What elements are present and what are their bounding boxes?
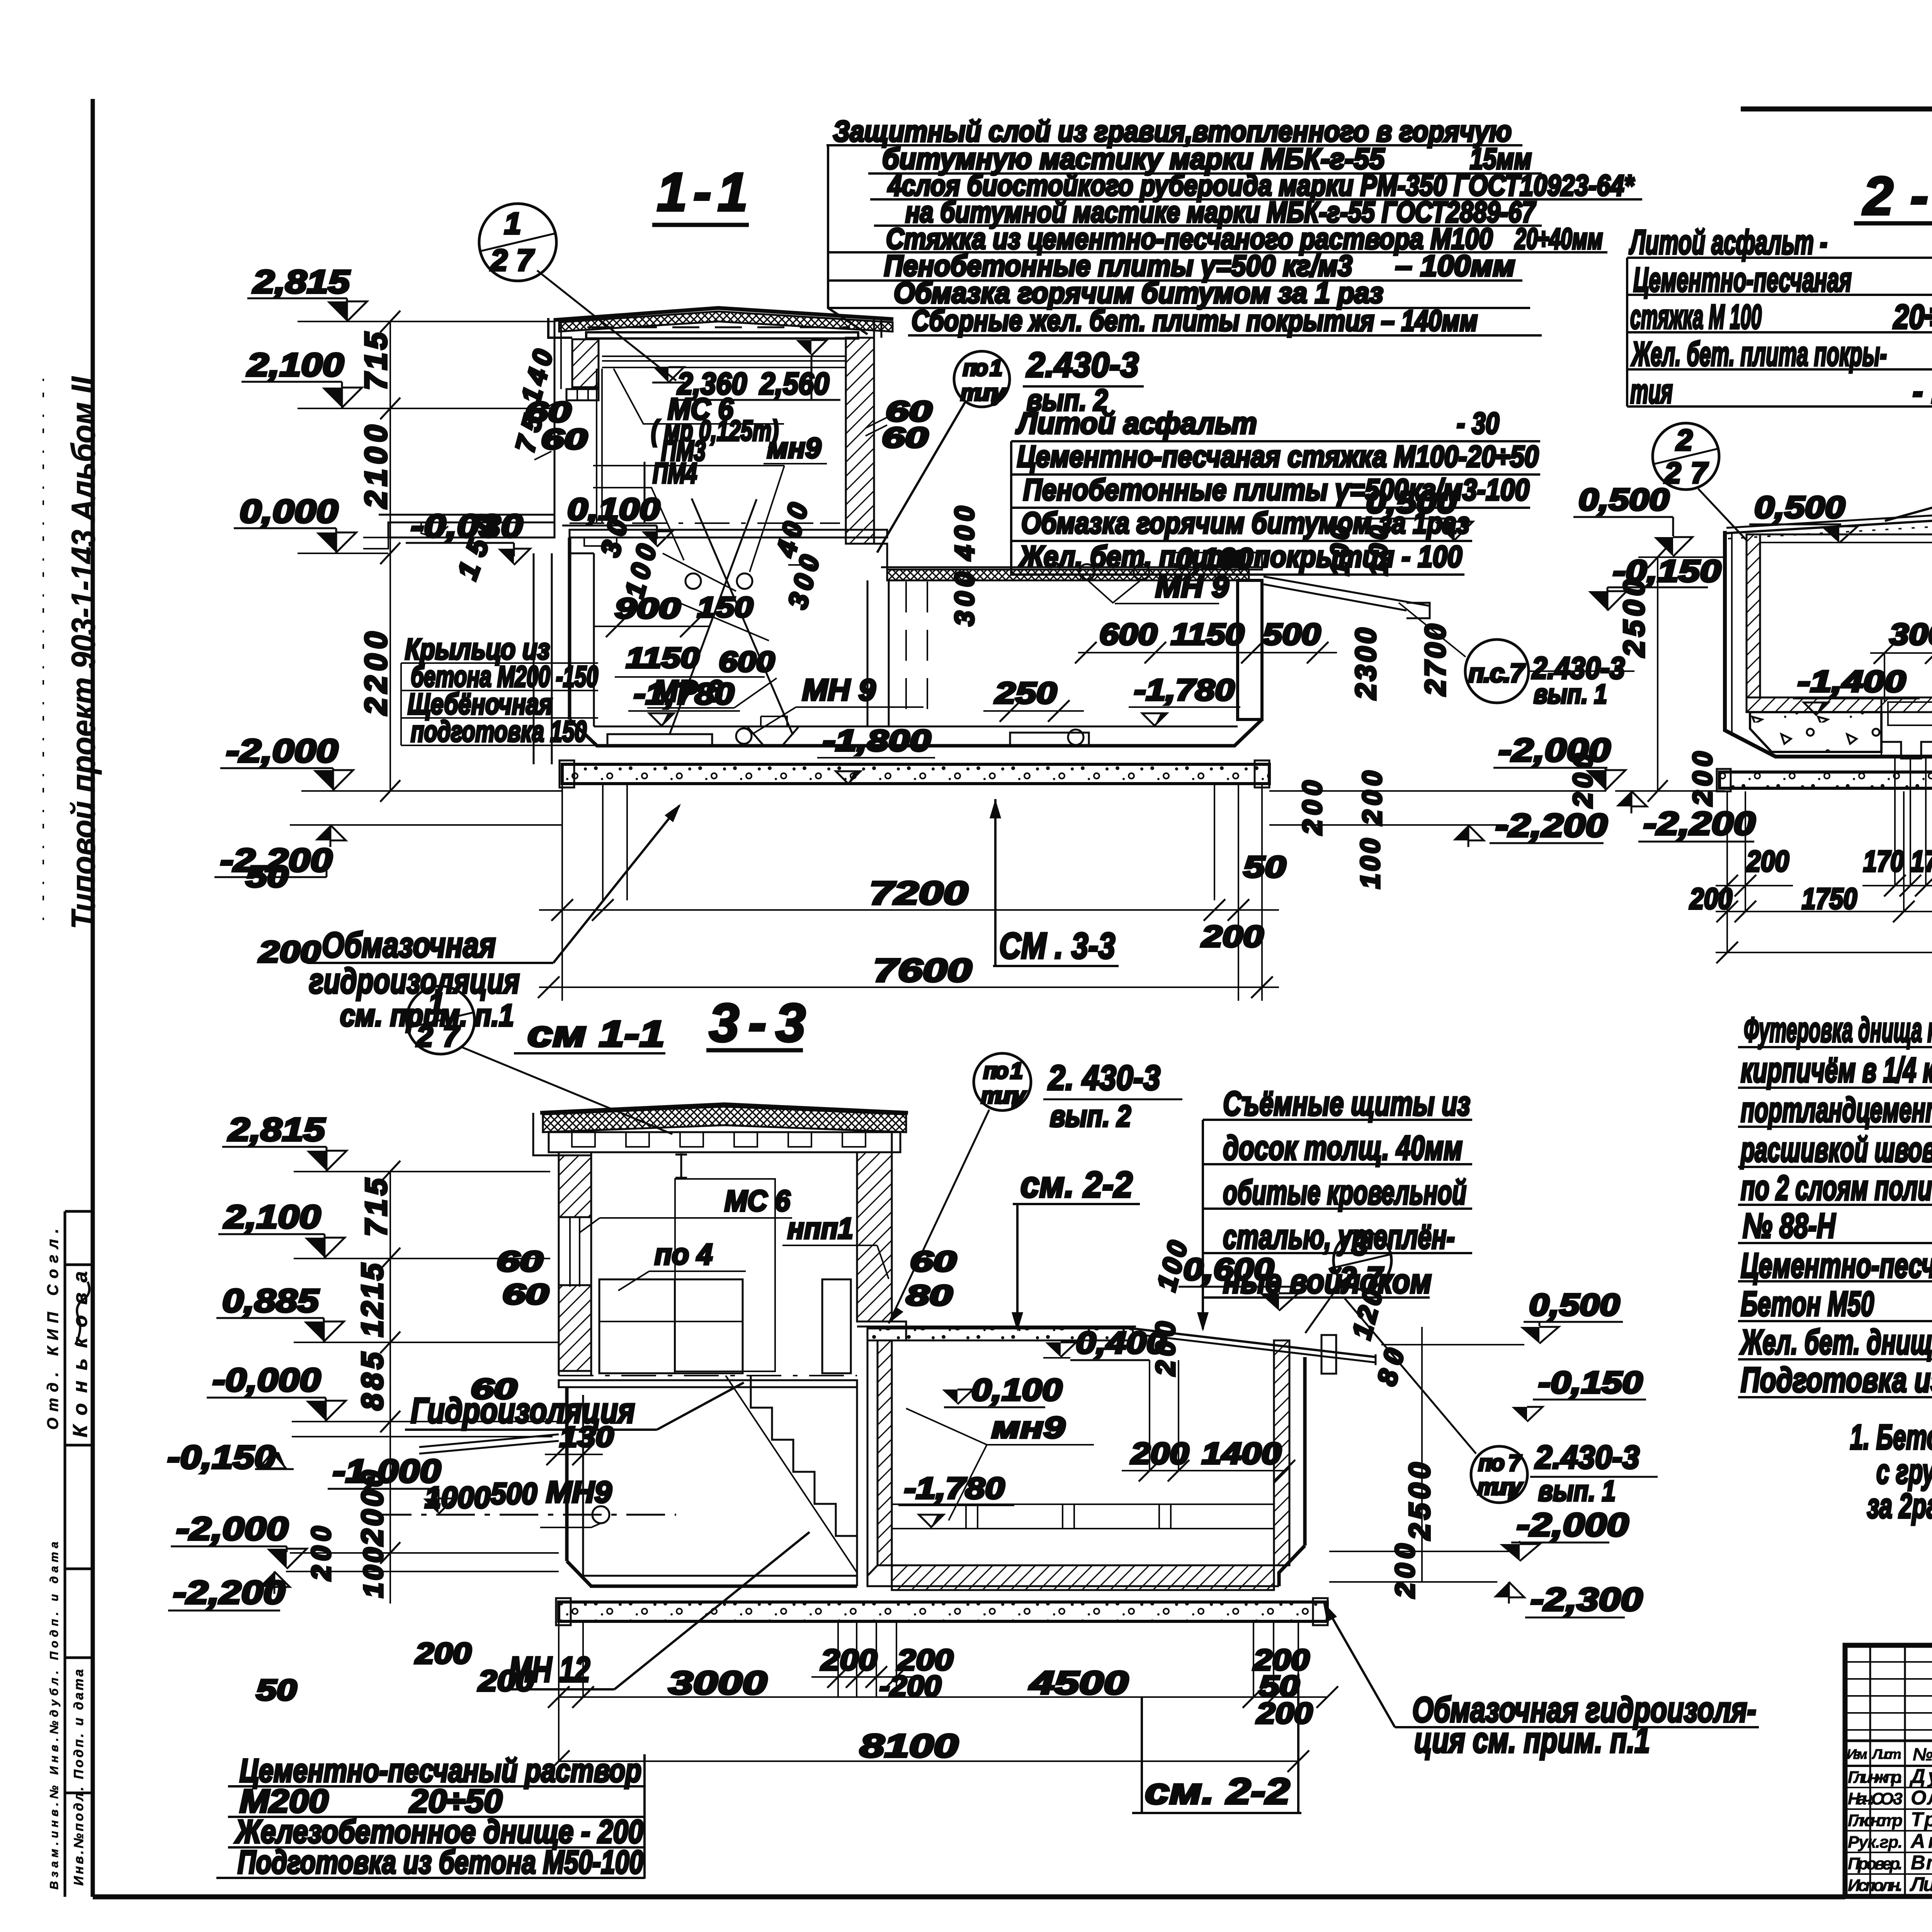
svg-text:200: 200: [1201, 919, 1264, 953]
svg-text:60: 60: [541, 423, 587, 455]
2500 rotated + chain: [1657, 557, 1658, 791]
bottom extension verticals 3-3: [558, 1621, 560, 1761]
svg-text:Футеровка днища кислотоупорны: Футеровка днища кислотоупорным: [1744, 1011, 1932, 1049]
svg-text:-0,000: -0,000: [213, 1362, 321, 1398]
svg-text:1750: 1750: [1802, 883, 1857, 915]
tank middle wall under right wall of building: [867, 580, 869, 726]
tank interior ceiling lines: [1747, 534, 1932, 536]
svg-text:кирпичём в 1/4 кирпича в 2: кирпичём в 1/4 кирпича в 2 слоя на: [1741, 1051, 1932, 1090]
left columns verticals: [1869, 1645, 1871, 1896]
lower roof slab over tank: [881, 566, 1266, 568]
g-section11: [214, 204, 1721, 1001]
svg-text:200: 200: [1297, 781, 1327, 835]
0,000 level dash line and floor: [559, 1375, 857, 1376]
svg-text:80: 80: [906, 1279, 952, 1311]
marker circle 1/27 (3-3): [406, 986, 474, 1054]
wooden cover sloped right: [1132, 1328, 1376, 1357]
brick ledge under column: [566, 389, 599, 400]
по1/типу circle (3-3): [974, 1053, 1031, 1111]
anchor circles МН9: [685, 573, 701, 589]
g-section33: [167, 986, 1658, 1772]
right wall hatched 3-3: [857, 1152, 892, 1321]
svg-text:по 4: по 4: [655, 1238, 713, 1271]
svg-text:60: 60: [471, 1373, 517, 1405]
rules of roof note: [827, 144, 1522, 146]
svg-text:Жел. бет. днище: Жел. бет. днище: [1740, 1323, 1932, 1362]
svg-text:50: 50: [1243, 850, 1286, 884]
svg-text:2,560: 2,560: [759, 366, 829, 401]
ladder diagonals: [692, 498, 793, 735]
svg-text:Типовой проект 903-1-143 А: Типовой проект 903-1-143 Альбом II: [65, 376, 102, 929]
svg-text:обитые кровельной: обитые кровельной: [1223, 1173, 1466, 1211]
svg-text:60: 60: [882, 422, 928, 454]
main dims row 1750: [1716, 911, 1932, 912]
svg-text:сталью, утеплён-: сталью, утеплён-: [1223, 1218, 1455, 1256]
svg-text:3: 3: [1352, 1229, 1368, 1262]
svg-text:за 2раза по холодной бензи: за 2раза по холодной бензинобитумной гру…: [1867, 1487, 1932, 1526]
7600 row 2-2: [1716, 952, 1932, 953]
svg-text:1: 1: [504, 206, 521, 240]
svg-text:-2,200: -2,200: [1643, 805, 1755, 842]
svg-text:-2,000: -2,000: [226, 733, 338, 769]
svg-text:-2,200: -2,200: [220, 842, 332, 878]
left wall hatched upper: [559, 1155, 591, 1217]
left wall window strip: [558, 1152, 560, 1376]
svg-text:мн9: мн9: [992, 1410, 1065, 1444]
marker circle по1/типу (1-1): [954, 351, 1010, 407]
svg-text:Отд. КИП Согл.: Отд. КИП Согл.: [44, 1229, 61, 1430]
svg-text:600: 600: [719, 646, 775, 678]
svg-text:100: 100: [358, 1548, 388, 1598]
svg-text:см. 2-2: см. 2-2: [1145, 1771, 1290, 1812]
svg-text:портландцементном растворе с: портландцементном растворе с: [1741, 1091, 1932, 1129]
svg-text:вып. 2: вып. 2: [1050, 1099, 1131, 1133]
svg-text:-0,150: -0,150: [1538, 1365, 1643, 1400]
svg-text:нпп1: нпп1: [787, 1212, 853, 1245]
svg-text:Гл.инж.пр.: Гл.инж.пр.: [1848, 1768, 1903, 1787]
svg-text:200: 200: [1130, 1436, 1189, 1470]
по7/типу circle bottom: [1471, 1446, 1527, 1503]
signature rows: [1845, 1787, 1932, 1788]
svg-text:Литой асфальт -: Литой асфальт -: [1629, 223, 1827, 261]
svg-text:-2,200: -2,200: [1495, 807, 1607, 844]
svg-text:200: 200: [1687, 752, 1718, 806]
svg-text:3 - 3: 3 - 3: [709, 992, 806, 1053]
svg-text:200: 200: [1568, 753, 1598, 808]
МС6 interior column: [675, 1179, 775, 1371]
0.000 dash-dot line: [570, 522, 840, 524]
svg-text:3000: 3000: [668, 1665, 767, 1701]
svg-text:-2,000: -2,000: [1517, 1507, 1629, 1543]
МН9 labels right room: [1079, 564, 1095, 580]
svg-text:8100: 8100: [860, 1728, 958, 1764]
left wall hatched lower block: [559, 1285, 591, 1371]
svg-text:1000: 1000: [425, 1480, 490, 1514]
tank right wall: [1238, 580, 1262, 719]
svg-text:СМ . 3-3: СМ . 3-3: [999, 925, 1115, 966]
svg-text:Цементно-песчаная: Цементно-песчаная: [1633, 260, 1852, 299]
left tank floor slab hatched: [1747, 697, 1932, 712]
svg-text:Олешко: Олешко: [1911, 1787, 1932, 1809]
right wall hatched: [846, 338, 874, 544]
svg-text:Трейс: Трейс: [1911, 1808, 1932, 1831]
left eave block: [548, 318, 572, 338]
roof top line 3-3: [540, 1104, 908, 1113]
extension verticals below 2-2: [1726, 791, 1728, 952]
svg-text:2,100: 2,100: [247, 347, 344, 383]
vertical dim chain left: [389, 321, 391, 791]
svg-text:Съёмные щиты из: Съёмные щиты из: [1223, 1084, 1470, 1122]
svg-text:Провер.: Провер.: [1848, 1854, 1903, 1873]
porch foundation wall: [533, 553, 535, 764]
left wall inner double lines: [596, 369, 597, 522]
svg-text:Исполн.: Исполн.: [1848, 1876, 1903, 1895]
porch slab left: [379, 514, 554, 516]
svg-text:гидроизоляция: гидроизоляция: [309, 961, 520, 1001]
svg-text:1150: 1150: [1171, 617, 1244, 651]
svg-text:см. 2-2: см. 2-2: [1020, 1164, 1133, 1205]
marker circle 2/27: [1653, 423, 1719, 490]
svg-text:715: 715: [359, 332, 393, 391]
svg-text:300: 300: [1889, 617, 1932, 651]
svg-text:типу: типу: [1478, 1475, 1523, 1500]
svg-text:885: 885: [355, 1352, 389, 1410]
svg-text:Подготовка из бетона М50-100: Подготовка из бетона М50-100: [238, 1844, 643, 1880]
svg-text:– 100мм: – 100мм: [1395, 250, 1515, 282]
left wall column hatched: [572, 339, 599, 387]
svg-text:200: 200: [1746, 845, 1789, 878]
dimension row 7600: [539, 986, 1279, 988]
svg-text:100: 100: [1355, 838, 1385, 889]
concrete wedge blocks (stippled): [1750, 712, 1881, 752]
left tank walls hatched: [1747, 534, 1760, 697]
right tank interior rails: [892, 1503, 1274, 1505]
svg-text:2.430-3: 2.430-3: [1534, 1439, 1639, 1475]
svg-text:-1,400: -1,400: [1798, 664, 1906, 698]
svg-text:2,815: 2,815: [252, 264, 350, 300]
svg-text:по 7: по 7: [1478, 1451, 1522, 1476]
foundation strip 2-2: [1719, 772, 1932, 788]
floor blocks: [607, 734, 712, 745]
svg-text:-2,300: -2,300: [1531, 1581, 1643, 1617]
svg-text:Гл.констр: Гл.констр: [1848, 1811, 1903, 1830]
roof slab band: [586, 332, 858, 338]
svg-text:по 1: по 1: [983, 1058, 1023, 1083]
svg-text:вып. 1: вып. 1: [1534, 679, 1607, 709]
svg-text:200: 200: [415, 1637, 471, 1670]
lower left tank walls: [565, 1387, 569, 1561]
right tank walls 3-3: [878, 1340, 892, 1565]
roof crosshatch strip 3-3: [543, 1107, 906, 1132]
title block outer frame: [1845, 1645, 1932, 1932]
svg-text:1400: 1400: [1202, 1436, 1281, 1470]
svg-text:0,500: 0,500: [1366, 485, 1457, 519]
3/27 circle: [1333, 1231, 1391, 1289]
svg-text:715: 715: [359, 1178, 393, 1236]
svg-text:Обмазочная: Обмазочная: [322, 925, 496, 965]
svg-text:0,600: 0,600: [1183, 1252, 1274, 1286]
svg-text:0,100: 0,100: [1176, 543, 1253, 575]
ribbed roof plates row: [549, 1132, 900, 1152]
svg-text:Рук.гр.: Рук.гр.: [1848, 1833, 1903, 1852]
vertical dim chain 3-3: [389, 1172, 391, 1604]
-2,200 right: [1269, 824, 1507, 826]
svg-text:4500: 4500: [1029, 1665, 1128, 1701]
svg-text:досок толщ. 40мм: досок толщ. 40мм: [1223, 1129, 1463, 1167]
tank left wall: [568, 537, 571, 719]
g-section22: [1568, 423, 1932, 963]
svg-text:расшивкой швов замазкой„Арза: расшивкой швов замазкой„Арзамит-5": [1740, 1131, 1932, 1169]
svg-text:по 1: по 1: [963, 355, 1002, 381]
g-titleblock: [1845, 1645, 1932, 1932]
svg-text:60: 60: [502, 1278, 549, 1310]
faint scan marks far left: [43, 379, 44, 927]
svg-text:см 1-1: см 1-1: [527, 1014, 665, 1054]
svg-text:200: 200: [258, 935, 321, 969]
svg-text:50: 50: [256, 1674, 297, 1707]
svg-text:Лимонович: Лимонович: [1909, 1873, 1932, 1896]
svg-text:типу: типу: [961, 380, 1006, 405]
svg-text:2 - 2: 2 - 2: [1862, 165, 1932, 226]
svg-text:100: 100: [1325, 526, 1354, 576]
svg-text:200: 200: [478, 1665, 534, 1697]
svg-text:Изм.: Изм.: [1847, 1746, 1868, 1762]
marker circle 1/27: [479, 204, 556, 281]
svg-text:по 2 слоям полиизобутилена н: по 2 слоям полиизобутилена на клею: [1741, 1169, 1932, 1207]
svg-text:Нач.СО-3: Нач.СО-3: [1848, 1789, 1903, 1808]
svg-text:20÷40мм: 20÷40мм: [1514, 223, 1603, 255]
svg-text:600: 600: [1099, 617, 1157, 651]
squiggle signature in margin: [75, 1282, 89, 1345]
svg-text:ПМ4: ПМ4: [653, 457, 697, 489]
svg-text:2,815: 2,815: [228, 1111, 326, 1148]
svg-text:7200: 7200: [869, 875, 968, 911]
left wall outer lines: [554, 318, 556, 522]
dimension row 7200: [539, 909, 1279, 911]
ceiling beam MC6 (3 lines): [602, 355, 846, 357]
svg-text:Думан: Думан: [1909, 1765, 1932, 1787]
svg-text:1 - 1: 1 - 1: [657, 162, 748, 222]
svg-text:250: 250: [994, 676, 1057, 710]
8100 row: [559, 1760, 1298, 1762]
elevation -2,200 (3-3): [286, 1571, 559, 1572]
svg-text:тия: тия: [1630, 372, 1673, 410]
left margin stamp column lines: [65, 1210, 93, 1213]
left cover (съёмный щит): [1725, 515, 1932, 533]
svg-text:с грунтом покрыть горячей: с грунтом покрыть горячей битумной обмаз…: [1876, 1452, 1932, 1491]
по 4 equipment boxes: [599, 1279, 743, 1373]
svg-text:- 100: - 100: [1913, 372, 1932, 410]
right tank floor slab hatched: [892, 1565, 1274, 1590]
svg-text:Цементно-песчаная стяжка М100-: Цементно-песчаная стяжка М100-25: [1741, 1247, 1932, 1285]
sheet top border (right part): [1741, 107, 1932, 112]
roof insulation crosshatch strip: [559, 311, 893, 332]
header row: [1845, 1740, 1932, 1742]
svg-text:2. 430-3: 2. 430-3: [1048, 1059, 1160, 1097]
svg-text:Подготовка из бетона М50- 10: Подготовка из бетона М50- 100: [1741, 1361, 1932, 1400]
drain pipe lines right: [1264, 577, 1430, 611]
svg-text:170: 170: [1863, 845, 1904, 878]
svg-text:-1,780: -1,780: [1134, 673, 1235, 707]
svg-text:200: 200: [306, 1526, 336, 1581]
-2,300 right 3-3: [1329, 1581, 1497, 1583]
svg-text:-2,200: -2,200: [173, 1574, 285, 1611]
svg-text:п.с.7: п.с.7: [1468, 658, 1526, 688]
svg-text:-1,800: -1,800: [823, 723, 931, 757]
svg-text:60: 60: [497, 1245, 543, 1277]
svg-text:2: 2: [1675, 424, 1692, 457]
svg-text:200: 200: [1390, 1544, 1420, 1599]
svg-text:МН9: МН9: [546, 1475, 612, 1509]
svg-text:Лист.: Лист.: [1871, 1746, 1902, 1762]
extension verticals below foundation: [602, 784, 604, 900]
svg-text:500: 500: [491, 1476, 537, 1510]
roof top line: [555, 308, 893, 320]
main dim row 3-3: [559, 1696, 1327, 1698]
funnel in floor: [748, 727, 798, 745]
svg-text:200: 200: [1256, 1697, 1313, 1730]
sheet bottom border: [93, 1895, 1845, 1900]
svg-text:200: 200: [1357, 771, 1387, 826]
door post: [644, 462, 646, 522]
foundation strip 3-3: [559, 1602, 1327, 1621]
svg-text:0,885: 0,885: [222, 1282, 320, 1319]
middle wall pair: [856, 1387, 858, 1586]
svg-text:-200: -200: [879, 1670, 941, 1703]
svg-text:7600: 7600: [873, 952, 972, 988]
svg-text:20÷50: 20÷50: [1893, 298, 1932, 336]
svg-text:МН 9: МН 9: [802, 673, 876, 707]
svg-text:2,100: 2,100: [223, 1199, 321, 1235]
svg-text:0,500: 0,500: [1529, 1287, 1620, 1322]
svg-text:2.430-3: 2.430-3: [1026, 346, 1139, 384]
svg-text:130: 130: [560, 1421, 614, 1453]
upper room floor slab: [570, 530, 887, 537]
svg-text:- 30: - 30: [1457, 406, 1499, 440]
hatched strip between hopper and blocks: [1881, 712, 1932, 757]
svg-text:типу: типу: [981, 1083, 1027, 1108]
svg-text:200: 200: [1689, 883, 1732, 915]
svg-text:1150: 1150: [626, 642, 699, 674]
left eave 3-3: [533, 1113, 559, 1155]
svg-text:170: 170: [1911, 845, 1932, 878]
floor slab over right tank left part (stippled): [867, 1328, 1133, 1340]
svg-text:300: 300: [949, 572, 980, 626]
svg-text:150: 150: [697, 591, 753, 623]
-2,200 mark 2-2: [1615, 790, 1725, 792]
svg-text:стяжка М 100: стяжка М 100: [1630, 298, 1762, 336]
svg-text:0,500: 0,500: [1754, 490, 1845, 524]
left hopper: [1881, 697, 1932, 759]
svg-text:1. Бетонную поверхность скла: 1. Бетонную поверхность склада соприкаса…: [1850, 1418, 1932, 1457]
right wall outer line: [873, 319, 875, 338]
svg-text:1: 1: [428, 987, 444, 1020]
svg-text:МС 6: МС 6: [724, 1185, 791, 1218]
svg-text:Цементно-песчаная стяжка М100-: Цементно-песчаная стяжка М100-20÷50: [1017, 439, 1539, 473]
svg-text:500: 500: [1263, 617, 1321, 651]
svg-text:200: 200: [1150, 1321, 1180, 1376]
svg-text:Сборные жел. бет. плиты пок: Сборные жел. бет. плиты покрытия – 140мм: [912, 304, 1478, 337]
svg-text:0,100: 0,100: [971, 1372, 1062, 1407]
2,360 2,560 floor marks: [653, 367, 668, 383]
svg-text:100: 100: [1364, 526, 1393, 576]
svg-text:0,000: 0,000: [240, 493, 338, 529]
svg-text:№ докум.: № докум.: [1913, 1744, 1932, 1764]
tank bottom chamfers and slab: [570, 719, 1262, 746]
stairs: [751, 1376, 857, 1568]
pit outer shell: [1725, 524, 1932, 757]
foundation stipple strip: [562, 764, 1269, 784]
svg-text:подготовка 150: подготовка 150: [411, 715, 587, 748]
svg-text:Апсе: Апсе: [1910, 1830, 1932, 1852]
svg-text:Второв: Второв: [1911, 1852, 1932, 1874]
entrance ramp left: [419, 1434, 559, 1447]
svg-text:-1,780: -1,780: [904, 1471, 1005, 1505]
svg-text:200: 200: [820, 1644, 877, 1677]
left elevation -2,200: [290, 824, 562, 826]
svg-text:Литой асфальт: Литой асфальт: [1015, 406, 1257, 440]
svg-text:вып. 1: вып. 1: [1538, 1475, 1616, 1507]
svg-text:№ 88-Н: № 88-Н: [1743, 1207, 1836, 1245]
svg-text:0,500: 0,500: [1578, 482, 1669, 517]
svg-text:-1,780: -1,780: [634, 677, 734, 711]
svg-text:Жел. бет. плита покры-: Жел. бет. плита покры-: [1631, 335, 1887, 373]
upper thin grid rows: [1845, 1661, 1932, 1663]
п.с.7 circle: [1465, 639, 1529, 703]
dashed joint lines mid tank: [905, 582, 907, 726]
svg-text:-2,000: -2,000: [176, 1510, 288, 1547]
svg-text:400: 400: [949, 506, 980, 561]
sheet left border: [91, 99, 95, 1897]
svg-text:Бетон М50: Бетон М50: [1741, 1285, 1874, 1323]
svg-text:мн9: мн9: [767, 432, 821, 464]
